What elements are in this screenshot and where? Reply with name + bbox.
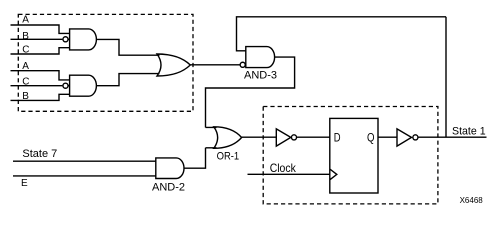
wire G2 output to OR bottom input: [96, 74, 159, 86]
svg-text:Q: Q: [367, 131, 375, 145]
flip-flop U2 (D flip-flop) body: [330, 118, 378, 193]
wire G1 output to OR top input: [96, 39, 159, 55]
wire input A to G1 top: [11, 25, 70, 33]
wire input B to G1 bubble: [11, 38, 70, 40]
svg-text:A: A: [22, 15, 29, 26]
wire inverter 1 to D input: [297, 136, 330, 138]
svg-text:X6468: X6468: [460, 196, 484, 205]
wire Q output to inverter 2: [378, 136, 397, 138]
inverter bubble on AND-3 lower input: [240, 62, 245, 67]
wire feedback vertical to top rail: [445, 17, 447, 137]
svg-text:E: E: [21, 178, 28, 189]
wire AND-2 output up to OR-1 bottom input: [184, 148, 217, 168]
dashed box 2 (flip-flop group): [263, 107, 438, 204]
wire OR-1 output to inverter 1: [242, 136, 277, 138]
wire input C to G1 bottom: [11, 48, 70, 54]
svg-text:OR-1: OR-1: [217, 151, 240, 163]
wire input C to G2 bubble: [11, 85, 70, 87]
wire top feedback rail: [237, 17, 447, 51]
or gate OR-1: [214, 127, 242, 149]
and gate G1 (3-input, inverted B input): [70, 29, 97, 50]
svg-text:B: B: [22, 31, 29, 42]
wire Clock to flip-flop clock pin: [248, 173, 330, 175]
clock wedge on flip-flop: [330, 169, 337, 180]
wire input B to G2 bottom: [11, 94, 70, 100]
inverter U3 (triangle): [397, 129, 412, 146]
inverter bubble on B input of G1: [63, 37, 68, 42]
svg-text:AND-2: AND-2: [152, 182, 185, 194]
inverter U3 bubble: [413, 135, 418, 140]
and gate G2 (3-input, inverted C input): [70, 75, 97, 96]
wire State 1 output: [418, 136, 486, 138]
wire OR output to AND-3 bubble input: [190, 64, 240, 66]
svg-text:AND-3: AND-3: [244, 69, 277, 81]
inverter U1 bubble: [291, 135, 296, 140]
dashed box 1 (combinational logic group): [18, 14, 193, 111]
or gate G3 (first-level OR): [157, 54, 190, 76]
wire E to AND-2 bottom input: [13, 175, 156, 177]
and gate AND-3: [246, 47, 275, 68]
inverter bubble on C input of G2: [63, 83, 68, 88]
and gate AND-2: [156, 158, 184, 179]
svg-text:D: D: [334, 131, 341, 145]
wire input A to G2 top: [11, 71, 70, 80]
svg-text:State 1: State 1: [452, 126, 486, 138]
svg-text:State 7: State 7: [22, 148, 57, 160]
svg-text:Clock: Clock: [270, 161, 297, 175]
inverter U1 (triangle): [276, 129, 291, 146]
wire AND-3 output down and left to OR-1 top input: [206, 57, 295, 127]
wire State 7 to AND-2 top input: [13, 160, 156, 162]
